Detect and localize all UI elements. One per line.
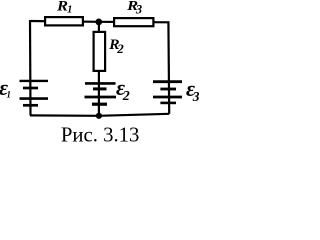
battery E3 bbox=[153, 82, 182, 103]
caption Fig 3.13 bbox=[61, 125, 140, 147]
wire top rail bbox=[30, 21, 168, 22]
label E3 bbox=[186, 76, 200, 104]
node top junction bbox=[95, 19, 102, 26]
label R2 bbox=[108, 37, 124, 56]
svg-text:Рис. 3.13: Рис. 3.13 bbox=[61, 125, 140, 147]
svg-text:3: 3 bbox=[135, 2, 142, 16]
label E1 bbox=[0, 75, 11, 100]
wire right branch bbox=[167, 21, 170, 114]
svg-text:1: 1 bbox=[67, 4, 72, 15]
svg-text:3: 3 bbox=[192, 89, 199, 104]
wire left branch bbox=[29, 20, 32, 115]
label R3 bbox=[126, 0, 142, 16]
wire bottom rail bbox=[30, 114, 169, 116]
battery E2 bbox=[85, 83, 117, 104]
resistor R2 bbox=[94, 32, 106, 71]
battery E1 bbox=[20, 81, 49, 105]
svg-text:2: 2 bbox=[116, 41, 124, 56]
label E2 bbox=[116, 75, 130, 104]
wire middle branch bbox=[98, 22, 100, 116]
svg-text:1: 1 bbox=[7, 90, 11, 100]
resistor R3 bbox=[114, 18, 153, 26]
svg-text:2: 2 bbox=[122, 89, 130, 104]
node bottom junction bbox=[96, 113, 102, 119]
label R1 bbox=[56, 0, 73, 15]
resistor R1 bbox=[45, 17, 83, 25]
